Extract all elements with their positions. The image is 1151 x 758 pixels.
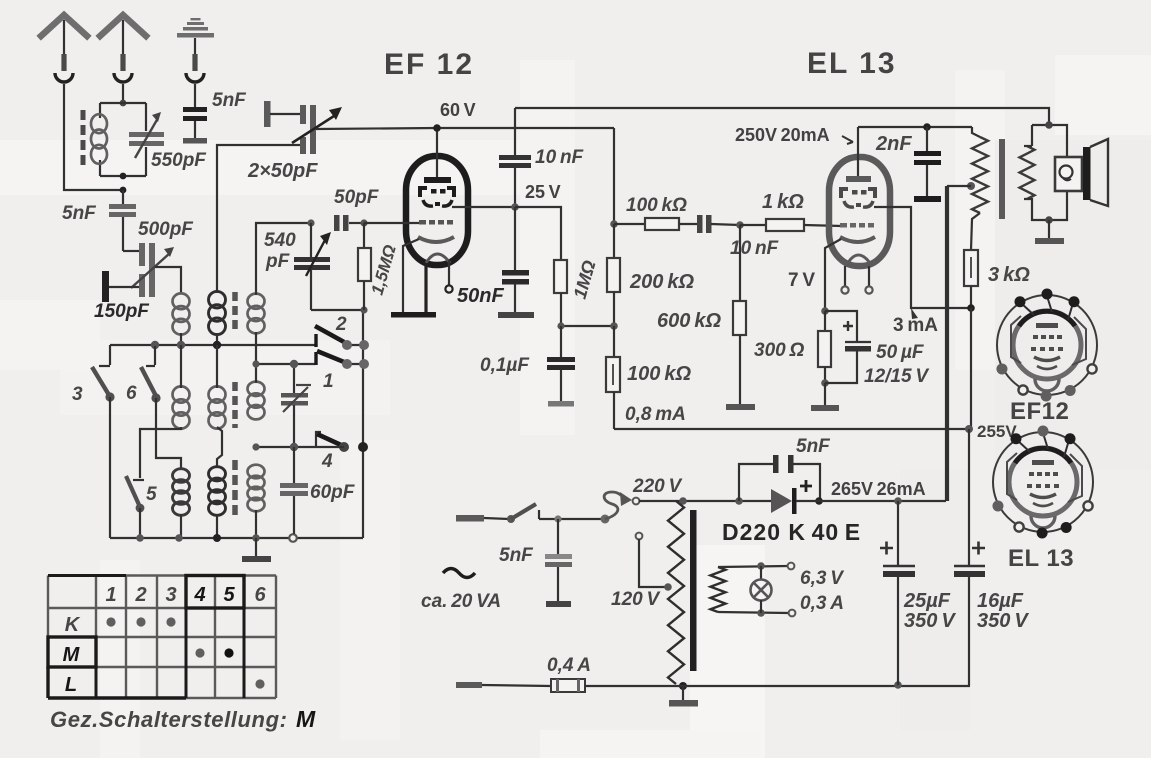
tube EF12 screen lead wire	[452, 206, 515, 208]
capacitor 0.1uF	[547, 326, 575, 407]
svg-text:265V 26mA: 265V 26mA	[831, 479, 926, 499]
capacitor 50pF	[334, 215, 364, 231]
label 25V	[525, 182, 561, 202]
label 10nF (coupling)	[730, 238, 780, 259]
label 265V 26mA	[831, 479, 926, 499]
svg-text:120 V: 120 V	[611, 589, 661, 610]
svg-text:50nF: 50nF	[457, 285, 504, 307]
svg-text:EL 13: EL 13	[1008, 545, 1074, 572]
svg-text:3: 3	[165, 584, 176, 606]
svg-text:200 kΩ: 200 kΩ	[629, 271, 694, 293]
tube socket EF12 (pinout)	[996, 289, 1097, 402]
svg-text:EF12: EF12	[1010, 398, 1069, 425]
antenna 2 lead wire	[122, 84, 124, 103]
label EF 12 (title)	[384, 48, 474, 81]
svg-text:220 V: 220 V	[632, 476, 683, 497]
wire 120V tap	[639, 539, 672, 591]
svg-text:2: 2	[335, 314, 347, 335]
label 2nF	[875, 133, 912, 155]
node 3k bottom	[967, 304, 975, 312]
label 3mA	[893, 315, 938, 336]
power transformer core	[690, 510, 697, 671]
node 200k bottom	[610, 322, 618, 330]
table row M	[63, 644, 234, 666]
svg-text:5nF: 5nF	[62, 203, 97, 224]
iron core row3 (dashed)	[232, 460, 238, 515]
svg-text:M: M	[296, 706, 316, 732]
node 25uF bottom	[894, 681, 902, 689]
node 2nF	[923, 123, 931, 131]
terminal 120V	[636, 533, 643, 540]
label 50uF	[876, 342, 925, 363]
svg-text:0,3 A: 0,3 A	[800, 593, 844, 614]
svg-text:D220 K 40 E: D220 K 40 E	[722, 519, 861, 545]
tube EF12 cathode	[418, 237, 454, 242]
tube EL13 stem dome	[846, 255, 872, 266]
bus wire bottom left block	[110, 537, 363, 539]
svg-text:150pF: 150pF	[94, 301, 150, 322]
wire to 500pF	[123, 250, 139, 252]
tube EL13 cathode	[840, 237, 875, 242]
table header 1-6	[105, 584, 266, 606]
svg-text:2: 2	[134, 584, 146, 606]
node 100k junction	[610, 220, 618, 228]
svg-text:0,1µF: 0,1µF	[480, 355, 530, 376]
tube EL13 anode lead wire	[874, 207, 971, 308]
ground (speaker)	[1035, 220, 1064, 244]
trimmer capacitor (padder)	[281, 364, 311, 447]
tube EL13 envelope	[829, 157, 890, 266]
terminal bar (150pF input)	[102, 271, 139, 302]
mains lead upper	[456, 515, 509, 522]
wire row1 junction line	[110, 344, 364, 346]
wire switch rail	[362, 310, 364, 538]
svg-text:550pF: 550pF	[151, 150, 207, 171]
label 60V	[440, 100, 476, 120]
wire speaker loop	[1024, 125, 1067, 220]
svg-text:3 kΩ: 3 kΩ	[988, 264, 1030, 286]
wire 2x50pF lower to middle coil	[217, 145, 300, 293]
node lamp top	[757, 562, 765, 570]
ground (300)	[811, 383, 839, 411]
label 100k (decoupling)	[627, 363, 691, 385]
switch 3	[92, 345, 115, 538]
wire bottom bus	[585, 685, 970, 687]
label 255V	[977, 422, 1017, 441]
output transformer secondary	[1020, 146, 1035, 199]
label 500pF	[138, 219, 194, 240]
ground (50nF)	[498, 312, 534, 318]
svg-text:3: 3	[72, 384, 83, 405]
capacitor 60pF	[280, 447, 308, 534]
wire tank loop	[100, 103, 146, 176]
capacitor 10nF (coupling)	[697, 215, 740, 233]
wire 220V line	[639, 500, 771, 502]
label 150pF	[94, 301, 150, 322]
label 540pF	[264, 230, 296, 272]
capacitor 50uF electrolytic	[825, 311, 871, 383]
svg-text:0,8 mA: 0,8 mA	[625, 404, 686, 425]
ground (trafo)	[669, 686, 698, 707]
wire sw4 line	[256, 446, 344, 448]
label 5nF (bridge)	[796, 436, 831, 457]
tube EF12 suppressor pin	[445, 260, 452, 293]
svg-text:10 nF: 10 nF	[730, 238, 780, 259]
svg-text:16µF: 16µF	[977, 590, 1024, 612]
label ~ (AC)	[443, 569, 475, 578]
tube EL13 screen grid	[841, 189, 875, 198]
svg-text:100 kΩ: 100 kΩ	[626, 195, 687, 216]
rectifier D220K40E	[771, 480, 812, 514]
node grid EL13 divider	[736, 221, 744, 229]
node sw1 right coil	[252, 360, 259, 367]
wire row2 tops	[181, 345, 256, 388]
antenna 2 symbol	[100, 15, 146, 82]
tube EL13 anode	[846, 176, 871, 182]
speaker magnet bar	[1083, 147, 1091, 200]
node 540pF top	[307, 219, 314, 226]
label 3mA pointer	[911, 308, 918, 319]
svg-text:K: K	[65, 614, 81, 636]
svg-text:ca. 20 VA: ca. 20 VA	[421, 591, 501, 612]
svg-text:12/15 V: 12/15 V	[864, 366, 929, 387]
capacitor 5nF (bridge)	[739, 455, 820, 501]
node trafo bottom	[679, 682, 687, 690]
tube EF12 envelope	[406, 156, 468, 265]
svg-text:300 Ω: 300 Ω	[754, 340, 805, 361]
label 0,3A	[800, 593, 844, 614]
switch 6	[141, 346, 161, 403]
node trimmer bottom	[290, 443, 298, 451]
capacitor 50nF	[502, 207, 529, 313]
switch 4	[316, 432, 368, 452]
svg-text:L: L	[65, 674, 77, 696]
node tank bottom	[120, 173, 127, 180]
label EL 13 (title)	[807, 47, 897, 80]
svg-text:540: 540	[264, 230, 296, 251]
coil L2c row1 right	[248, 294, 265, 334]
wire right coil to 540pF node	[256, 223, 311, 295]
capacitor 10nF (EF12 anode)	[499, 108, 531, 207]
svg-text:EL 13: EL 13	[807, 47, 897, 80]
wire row2 middle bottom to row3	[217, 427, 222, 468]
pilot lamp	[751, 566, 772, 613]
table row K	[65, 614, 176, 636]
resistor R 3k	[964, 250, 978, 308]
label 120V	[611, 589, 661, 610]
resistor R 600k	[733, 225, 746, 404]
node bus 60pF (open)	[289, 534, 297, 542]
svg-text:60pF: 60pF	[310, 482, 356, 503]
label 5nF (antenna)	[62, 203, 97, 224]
tube EF12 cathode lead	[403, 239, 419, 313]
wire row3 bottoms	[181, 510, 256, 538]
label 220V	[632, 476, 683, 497]
label 3	[72, 384, 83, 405]
ground (coil block)	[242, 538, 271, 562]
svg-text:5nF: 5nF	[212, 90, 247, 111]
svg-text:5: 5	[223, 584, 235, 606]
earth lead wire	[194, 84, 196, 107]
svg-text:EF 12: EF 12	[384, 48, 474, 81]
label 5	[146, 484, 157, 505]
coil L4c row3 right	[248, 465, 265, 512]
wire 0.8mA line	[614, 428, 969, 430]
node bus L4a	[175, 534, 183, 542]
svg-text:25 V: 25 V	[525, 182, 561, 202]
label 300	[754, 340, 805, 361]
earth terminal symbol	[177, 18, 214, 82]
svg-text:100 kΩ: 100 kΩ	[627, 363, 691, 385]
svg-text:M: M	[63, 644, 81, 666]
variable capacitor 550pF	[129, 112, 164, 158]
label 5nF (mains)	[499, 545, 534, 566]
iron core row1 (dashed)	[232, 292, 238, 330]
svg-text:7 V: 7 V	[788, 270, 815, 291]
label ca. 20VA	[421, 591, 501, 612]
label 250V 20mA	[735, 125, 853, 145]
variable capacitor 2x50pF	[292, 105, 342, 154]
svg-text:50 µF: 50 µF	[876, 342, 925, 363]
svg-text:350 V: 350 V	[977, 610, 1029, 632]
svg-text:2×50pF: 2×50pF	[247, 160, 318, 182]
wire 25V to 1M	[515, 207, 561, 260]
switch 2	[315, 326, 369, 350]
tube EF12 control grid	[419, 220, 453, 225]
wire row2 left bottom to switch5	[140, 427, 181, 478]
coil L3b row2 middle	[209, 386, 226, 428]
power transformer primary	[668, 501, 684, 684]
label EF12 (socket)	[1010, 398, 1069, 425]
tube EF12 beam plates	[423, 200, 452, 206]
node bus sw5	[136, 534, 144, 542]
node A2 top	[120, 100, 127, 107]
tube EF12 top cap lead	[433, 124, 441, 179]
label 2x50pF	[247, 160, 318, 182]
node 5nF mains	[554, 515, 561, 522]
capacitor 16uF electrolytic	[954, 429, 985, 686]
svg-text:Gez.Schalterstellung:: Gez.Schalterstellung:	[50, 707, 288, 732]
node sw4 right coil	[252, 443, 259, 450]
label EL13 (socket)	[1008, 545, 1074, 572]
svg-text:0,4 A: 0,4 A	[547, 655, 591, 676]
label 50nF	[457, 285, 504, 307]
wire row1 bottoms to bus line	[181, 332, 256, 364]
label 550pF	[151, 150, 207, 171]
capacitor 2nF	[914, 127, 941, 202]
node speaker bottom	[1045, 216, 1053, 224]
svg-text:4: 4	[321, 451, 333, 472]
label 5nF (earth)	[212, 90, 247, 111]
resistor R 100k (decoupling)	[606, 326, 620, 429]
tube EF12 screen grid	[420, 188, 454, 197]
node row1 left	[151, 341, 159, 349]
svg-text:1: 1	[105, 584, 116, 606]
tube EL13 top cap lead	[857, 127, 859, 179]
switch position table grid	[48, 576, 276, 699]
label 25uF	[903, 590, 956, 632]
resistor R 1.5M	[358, 223, 371, 310]
tube EF12 grid lead wire	[364, 222, 419, 224]
label 600k	[657, 310, 721, 332]
antenna 1 down-lead wire	[64, 84, 120, 190]
svg-text:6: 6	[126, 383, 137, 404]
switch 1	[256, 351, 369, 369]
svg-text:4: 4	[193, 584, 205, 606]
svg-text:2nF: 2nF	[875, 133, 912, 155]
resistor R 300	[818, 311, 831, 383]
capacitor 25uF electrolytic	[880, 501, 915, 685]
label 2	[335, 314, 347, 335]
ground (600k)	[726, 404, 755, 410]
tube EL13 cathode lead	[825, 239, 841, 311]
mains lead lower	[456, 682, 551, 688]
label 200k	[629, 271, 694, 293]
power switch	[507, 504, 605, 523]
speaker driver	[1055, 157, 1082, 191]
svg-text:600 kΩ: 600 kΩ	[657, 310, 721, 332]
label 4	[321, 451, 333, 472]
svg-text:6,3 V: 6,3 V	[800, 568, 844, 589]
wire 265V line	[796, 186, 946, 501]
node bus L4c	[252, 534, 260, 542]
wire tap to rectifier	[948, 186, 971, 501]
node 5nF bridge right	[815, 497, 823, 505]
svg-text:1: 1	[323, 371, 334, 392]
label 100k (coupling)	[626, 195, 687, 216]
label 12/15V	[864, 366, 929, 387]
coil L4a row3 left	[173, 469, 190, 516]
node 300 bottom	[821, 379, 829, 387]
wire 3k to 255V	[970, 308, 972, 429]
fuse 0,4A	[551, 679, 585, 692]
node 1M bottom	[557, 322, 564, 329]
output transformer primary	[971, 127, 988, 250]
coil L3c row2 right	[248, 382, 265, 420]
wire 60V down feed	[613, 128, 615, 224]
capacitor 5nF (antenna series)	[109, 190, 136, 251]
coil L4b row3 middle	[209, 467, 226, 516]
wire top rail	[515, 108, 1049, 125]
tube EL13 beam plates	[844, 201, 873, 207]
tube EL13 control grid	[840, 223, 874, 228]
node primary tap	[967, 182, 975, 190]
wire EL13 anode top line	[858, 126, 972, 128]
antenna 1 symbol	[41, 15, 87, 82]
wire 60V line	[316, 128, 614, 129]
label 0,1uF	[480, 355, 530, 376]
tube EF12 heater lead	[424, 263, 427, 313]
coil L1 (antenna tank)	[91, 114, 107, 164]
svg-text:350 V: 350 V	[904, 610, 956, 632]
label 7V	[788, 270, 815, 291]
svg-text:3 mA: 3 mA	[893, 315, 938, 336]
wire heater bottom	[718, 610, 795, 617]
svg-text:5nF: 5nF	[499, 545, 534, 566]
node 5nF bridge left	[735, 497, 743, 505]
terminal 220V	[633, 498, 640, 505]
tube socket EL13 (pinout)	[992, 426, 1093, 539]
svg-text:1 kΩ: 1 kΩ	[762, 191, 804, 213]
variable capacitor 500pF	[131, 243, 174, 297]
node bus L4b	[213, 534, 221, 542]
node 255V	[965, 425, 973, 433]
svg-text:5nF: 5nF	[796, 436, 831, 457]
label 10nF (EF12)	[535, 147, 585, 168]
label D220 K40E	[722, 519, 861, 545]
speaker cone	[1090, 139, 1108, 206]
iron core row2 (dashed)	[232, 382, 238, 428]
svg-text:25µF: 25µF	[903, 590, 951, 612]
svg-text:60 V: 60 V	[440, 100, 476, 120]
capacitor 5nF (mains)	[545, 519, 572, 607]
wire sw6 to row3 left coil	[156, 398, 181, 470]
label 16uF	[977, 590, 1029, 632]
node 50pF out	[360, 219, 367, 226]
node 25V	[511, 203, 519, 211]
node trimmer top	[290, 360, 298, 368]
svg-text:10 nF: 10 nF	[535, 147, 585, 168]
coil L2a row1 left	[173, 293, 190, 334]
label 6	[126, 383, 137, 404]
resistor R 100k (coupling)	[614, 218, 697, 230]
iron core L1 (dashed)	[81, 110, 86, 166]
label 1k	[762, 191, 804, 213]
switch 5	[126, 476, 144, 538]
svg-text:500pF: 500pF	[138, 219, 194, 240]
capacitor 5nF (earth)	[183, 107, 207, 144]
resistor R 200k	[607, 224, 620, 326]
resistor R 1k	[740, 219, 842, 231]
node trafo primary top	[679, 497, 687, 505]
tube EL13 heater pins	[841, 266, 872, 294]
label 50pF	[334, 187, 380, 208]
node speaker top	[1045, 121, 1053, 129]
node row1 L2b	[213, 341, 221, 349]
node EL13 cathode	[821, 307, 829, 315]
terminal bar (2x50pF input)	[264, 101, 301, 127]
caption Gez. Schalterstellung M	[50, 706, 316, 732]
node 25uF top	[894, 497, 902, 505]
flexible lead squiggle	[601, 492, 633, 524]
tube EF12 stem dome	[426, 254, 450, 263]
wire 1M bottom	[561, 293, 613, 326]
variable capacitor 540pF	[294, 223, 364, 310]
label 1,5M	[368, 243, 400, 297]
output transformer core	[999, 139, 1005, 219]
power transformer heater winding	[711, 567, 726, 612]
wire heater top	[718, 563, 794, 570]
ground (EF12 cathode)	[391, 312, 436, 318]
resistor R 1M	[554, 260, 567, 293]
label 0,4A	[547, 655, 591, 676]
svg-text:50pF: 50pF	[334, 187, 380, 208]
label 60pF	[310, 482, 356, 503]
table row L	[65, 674, 265, 696]
label 6,3V	[800, 568, 844, 589]
wire 500pF to coil	[155, 267, 181, 293]
svg-text:6: 6	[254, 584, 266, 606]
tube EF12 anode	[424, 177, 451, 183]
coil L3a row2 left	[173, 386, 190, 428]
node antenna join	[120, 187, 127, 194]
coil L2b row1 middle	[209, 291, 226, 334]
label 3k	[988, 264, 1030, 286]
node row1 L2a	[177, 341, 185, 349]
label 0,8mA	[625, 404, 686, 425]
node lamp bottom	[757, 609, 765, 617]
label 1	[323, 371, 334, 392]
